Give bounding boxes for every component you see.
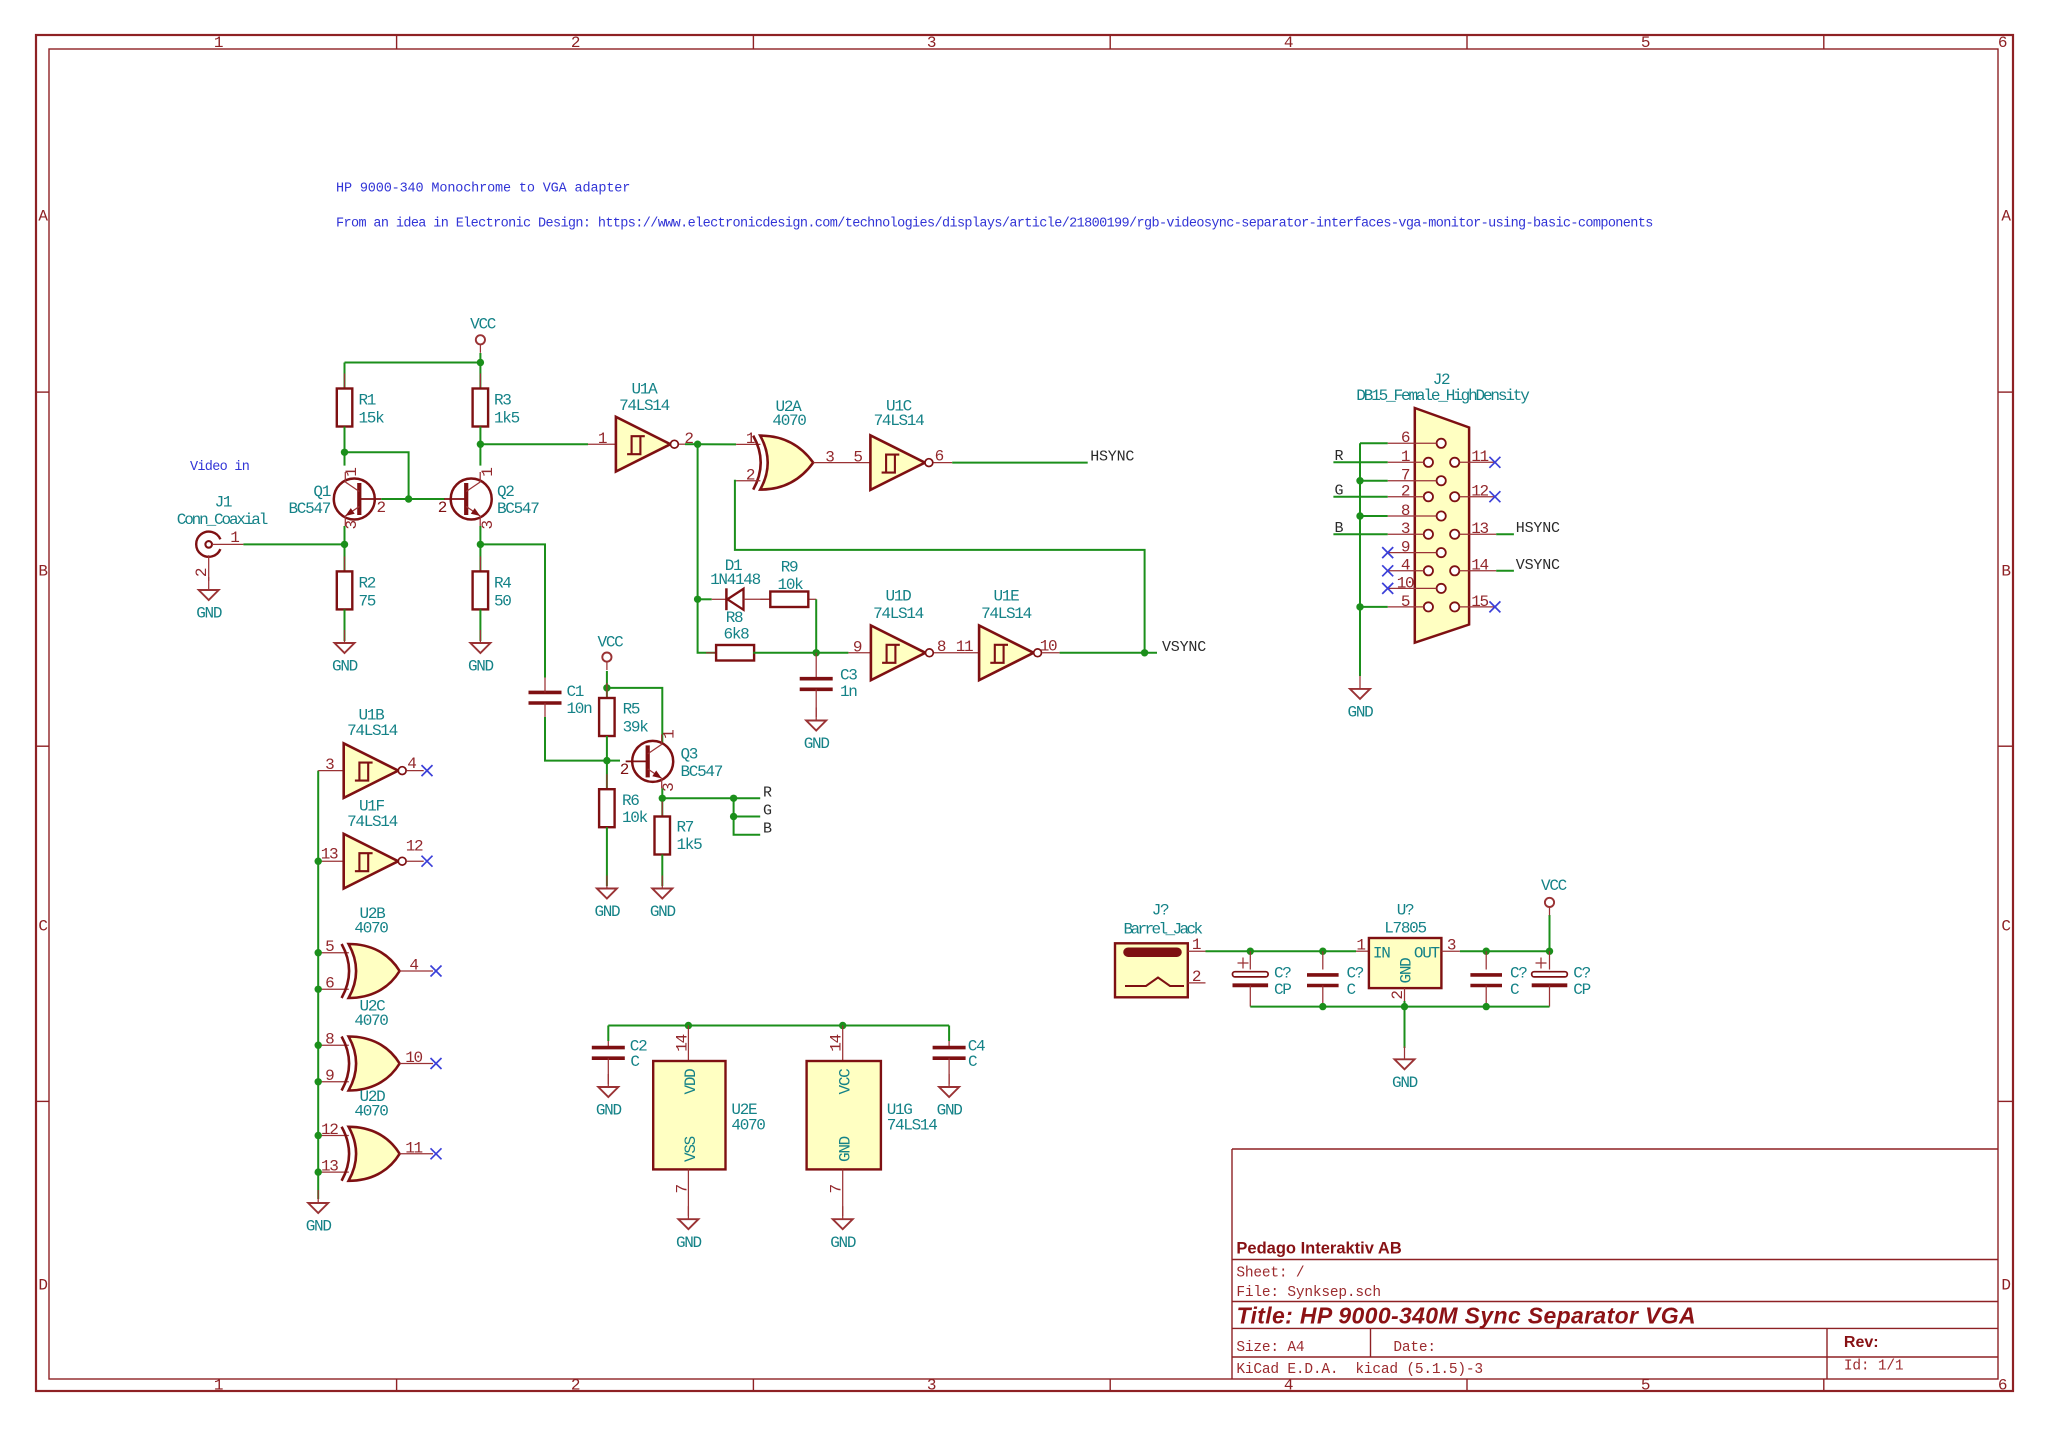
svg-text:4: 4 (1401, 557, 1410, 575)
svg-text:C: C (2001, 918, 2010, 936)
svg-text:15k: 15k (359, 410, 385, 428)
svg-text:C?: C? (1347, 965, 1364, 983)
svg-text:2: 2 (1401, 483, 1410, 501)
svg-text:4070: 4070 (354, 1103, 388, 1121)
svg-text:B: B (763, 821, 772, 838)
svg-text:4070: 4070 (731, 1116, 765, 1134)
svg-text:1: 1 (598, 430, 607, 448)
svg-text:R8: R8 (726, 609, 743, 627)
svg-text:R3: R3 (494, 392, 511, 410)
svg-text:74LS14: 74LS14 (873, 605, 924, 623)
svg-text:6: 6 (935, 448, 944, 466)
svg-text:GND: GND (196, 605, 222, 623)
svg-text:5: 5 (325, 938, 334, 956)
svg-text:7: 7 (673, 1185, 691, 1194)
svg-text:C?: C? (1573, 965, 1590, 983)
svg-text:11: 11 (1471, 448, 1488, 466)
svg-text:From an idea in Electronic Des: From an idea in Electronic Design: https… (336, 217, 1653, 232)
svg-text:8: 8 (937, 638, 946, 656)
svg-text:74LS14: 74LS14 (347, 813, 398, 831)
svg-text:BC547: BC547 (681, 763, 723, 781)
svg-text:10k: 10k (622, 809, 648, 827)
svg-text:74LS14: 74LS14 (874, 412, 925, 430)
svg-text:13: 13 (321, 846, 338, 864)
svg-text:HSYNC: HSYNC (1090, 449, 1134, 466)
svg-text:GND: GND (676, 1234, 702, 1252)
svg-text:Q2: Q2 (497, 483, 514, 501)
svg-text:3: 3 (1447, 936, 1456, 954)
svg-text:4: 4 (1284, 1377, 1293, 1395)
svg-text:10: 10 (1397, 574, 1414, 592)
svg-text:3: 3 (927, 1377, 936, 1395)
svg-text:1N4148: 1N4148 (710, 571, 761, 589)
svg-text:BC547: BC547 (497, 500, 539, 518)
svg-text:GND: GND (937, 1102, 963, 1120)
svg-text:BC547: BC547 (288, 500, 330, 518)
svg-text:6: 6 (1401, 429, 1410, 447)
svg-text:File: Synksep.sch: File: Synksep.sch (1236, 1285, 1381, 1301)
svg-text:Sheet: /: Sheet: / (1236, 1266, 1304, 1282)
svg-text:U1A: U1A (632, 380, 659, 398)
svg-text:VCC: VCC (470, 316, 496, 334)
svg-text:9: 9 (1401, 539, 1410, 557)
svg-text:C?: C? (1274, 965, 1291, 983)
svg-text:9: 9 (853, 639, 862, 657)
svg-text:C: C (1510, 981, 1519, 999)
svg-text:G: G (763, 803, 772, 820)
svg-text:R9: R9 (781, 559, 798, 577)
svg-text:14: 14 (673, 1034, 691, 1051)
svg-text:GND: GND (837, 1136, 855, 1162)
svg-text:Rev:: Rev: (1844, 1334, 1879, 1351)
svg-text:5: 5 (853, 448, 862, 466)
svg-text:2: 2 (571, 34, 580, 52)
svg-text:3: 3 (927, 34, 936, 52)
svg-text:1: 1 (214, 1377, 223, 1395)
svg-text:GND: GND (1398, 958, 1416, 984)
svg-text:R: R (763, 784, 772, 801)
svg-text:1k5: 1k5 (494, 410, 520, 428)
svg-text:6k8: 6k8 (724, 626, 750, 644)
svg-text:2: 2 (1192, 968, 1201, 986)
svg-text:15: 15 (1471, 593, 1488, 611)
svg-text:10: 10 (1040, 638, 1057, 656)
svg-text:1: 1 (661, 730, 679, 739)
svg-text:2: 2 (571, 1377, 580, 1395)
svg-text:74LS14: 74LS14 (347, 722, 398, 740)
svg-text:4070: 4070 (354, 920, 388, 938)
svg-text:1: 1 (746, 430, 755, 448)
svg-text:VSS: VSS (682, 1136, 700, 1162)
svg-text:2: 2 (746, 467, 755, 485)
svg-text:Q1: Q1 (313, 483, 330, 501)
svg-text:Video in: Video in (190, 460, 249, 475)
svg-text:U1E: U1E (994, 588, 1020, 606)
svg-text:R2: R2 (359, 575, 376, 593)
svg-text:4: 4 (1284, 34, 1293, 52)
svg-text:9: 9 (325, 1067, 334, 1085)
svg-text:KiCad E.D.A. kicad (5.1.5)-3: KiCad E.D.A. kicad (5.1.5)-3 (1236, 1362, 1483, 1378)
svg-text:12: 12 (321, 1121, 338, 1139)
svg-text:GND: GND (306, 1218, 332, 1236)
svg-text:VSYNC: VSYNC (1516, 557, 1560, 574)
svg-text:R4: R4 (494, 575, 511, 593)
svg-text:11: 11 (405, 1139, 422, 1157)
svg-text:10k: 10k (778, 576, 804, 594)
svg-text:1: 1 (214, 34, 223, 52)
svg-text:13: 13 (321, 1157, 338, 1175)
svg-text:C: C (630, 1053, 639, 1071)
svg-text:4: 4 (407, 755, 416, 773)
svg-text:GND: GND (830, 1234, 856, 1252)
svg-text:GND: GND (596, 1102, 622, 1120)
svg-text:HP 9000-340 Monochrome to VGA: HP 9000-340 Monochrome to VGA adapter (336, 182, 630, 197)
svg-text:R6: R6 (622, 792, 639, 810)
svg-text:3: 3 (1401, 520, 1410, 538)
svg-text:12: 12 (406, 838, 423, 856)
svg-text:1: 1 (1401, 448, 1410, 466)
svg-text:75: 75 (359, 593, 376, 611)
svg-text:1: 1 (1192, 936, 1201, 954)
svg-text:10n: 10n (567, 700, 593, 718)
svg-text:1n: 1n (840, 683, 857, 701)
svg-text:5: 5 (1641, 1377, 1650, 1395)
svg-text:VSYNC: VSYNC (1162, 639, 1206, 656)
svg-text:Q3: Q3 (681, 746, 698, 764)
svg-text:5: 5 (1401, 593, 1410, 611)
svg-text:39k: 39k (623, 718, 649, 736)
svg-text:J?: J? (1152, 902, 1169, 920)
svg-text:U1D: U1D (886, 588, 912, 606)
svg-text:R: R (1335, 448, 1344, 465)
svg-text:1k5: 1k5 (677, 836, 703, 854)
svg-text:8: 8 (1401, 502, 1410, 520)
svg-text:Barrel_Jack: Barrel_Jack (1123, 921, 1202, 939)
svg-text:2: 2 (193, 568, 211, 577)
svg-text:5: 5 (1641, 34, 1650, 52)
svg-text:4070: 4070 (772, 412, 806, 430)
svg-text:B: B (38, 563, 47, 581)
svg-text:12: 12 (1471, 483, 1488, 501)
svg-text:13: 13 (1471, 520, 1488, 538)
svg-text:GND: GND (468, 658, 494, 676)
svg-text:1: 1 (230, 529, 239, 547)
svg-text:D: D (2001, 1277, 2010, 1295)
svg-text:GND: GND (594, 903, 620, 921)
svg-text:1: 1 (1356, 936, 1365, 954)
svg-text:2: 2 (684, 430, 693, 448)
svg-text:14: 14 (828, 1034, 846, 1051)
svg-text:B: B (1335, 520, 1344, 537)
svg-text:J1: J1 (215, 493, 232, 511)
svg-text:8: 8 (325, 1031, 334, 1049)
svg-text:2: 2 (438, 499, 447, 517)
svg-text:L7805: L7805 (1384, 920, 1426, 938)
svg-text:OUT: OUT (1414, 945, 1440, 963)
svg-text:C: C (1347, 981, 1356, 999)
svg-text:GND: GND (332, 658, 358, 676)
svg-text:74LS14: 74LS14 (981, 605, 1032, 623)
svg-text:C1: C1 (567, 683, 584, 701)
svg-text:C?: C? (1510, 965, 1527, 983)
svg-text:2: 2 (377, 499, 386, 517)
svg-text:D: D (38, 1277, 47, 1295)
svg-text:2: 2 (1389, 991, 1407, 1000)
svg-text:CP: CP (1274, 981, 1291, 999)
svg-text:C: C (968, 1053, 977, 1071)
svg-text:Pedago Interaktiv AB: Pedago Interaktiv AB (1236, 1239, 1401, 1257)
svg-text:11: 11 (956, 638, 973, 656)
svg-text:1: 1 (343, 468, 361, 477)
svg-text:VCC: VCC (1541, 877, 1567, 895)
svg-text:Title: HP 9000-340M Sync Separ: Title: HP 9000-340M Sync Separator VGA (1237, 1303, 1696, 1329)
svg-text:6: 6 (325, 975, 334, 993)
svg-text:HSYNC: HSYNC (1516, 520, 1560, 537)
svg-text:Conn_Coaxial: Conn_Coaxial (177, 511, 268, 529)
svg-text:VDD: VDD (682, 1069, 700, 1095)
svg-text:6: 6 (1998, 34, 2007, 52)
svg-text:10: 10 (405, 1049, 422, 1067)
svg-text:C3: C3 (840, 667, 857, 685)
svg-text:74LS14: 74LS14 (887, 1116, 938, 1134)
svg-text:Size: A4: Size: A4 (1236, 1340, 1304, 1356)
svg-text:R7: R7 (677, 818, 694, 836)
svg-text:2: 2 (620, 761, 629, 779)
svg-text:R5: R5 (623, 700, 640, 718)
svg-text:U?: U? (1397, 902, 1414, 920)
svg-text:Date:: Date: (1393, 1340, 1436, 1356)
svg-text:GND: GND (1392, 1074, 1418, 1092)
svg-text:C: C (38, 918, 47, 936)
svg-text:Id: 1/1: Id: 1/1 (1844, 1359, 1904, 1375)
svg-text:1: 1 (479, 468, 497, 477)
svg-text:IN: IN (1373, 945, 1390, 963)
svg-text:4: 4 (409, 957, 418, 975)
svg-text:VCC: VCC (837, 1069, 855, 1095)
svg-text:3: 3 (479, 521, 497, 530)
svg-text:VCC: VCC (598, 634, 624, 652)
svg-text:7: 7 (828, 1185, 846, 1194)
svg-text:14: 14 (1471, 557, 1488, 575)
svg-text:B: B (2001, 563, 2010, 581)
svg-text:GND: GND (1348, 704, 1374, 722)
svg-text:6: 6 (1998, 1377, 2007, 1395)
svg-text:G: G (1335, 483, 1344, 500)
svg-text:50: 50 (494, 593, 511, 611)
svg-text:GND: GND (804, 735, 830, 753)
svg-text:74LS14: 74LS14 (619, 397, 670, 415)
svg-text:R1: R1 (359, 392, 376, 410)
svg-text:CP: CP (1573, 981, 1590, 999)
svg-text:4070: 4070 (354, 1012, 388, 1030)
svg-text:GND: GND (650, 903, 676, 921)
svg-text:3: 3 (325, 756, 334, 774)
svg-text:DB15_Female_HighDensity: DB15_Female_HighDensity (1356, 387, 1530, 405)
svg-text:3: 3 (343, 521, 361, 530)
svg-text:3: 3 (825, 448, 834, 466)
